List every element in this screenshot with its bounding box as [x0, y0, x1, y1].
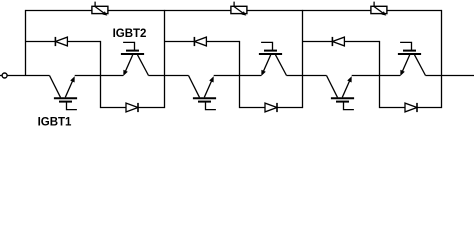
wire collector link cell 1	[149, 75, 189, 77]
wire top rail cell 2 right segment	[247, 10, 303, 12]
svg-text:IGBT2: IGBT2	[113, 28, 147, 40]
wire top rail cell 3 left segment	[303, 10, 371, 12]
wire clamp-diode rail cell 3 left segment	[303, 41, 333, 43]
wire top rail cell 1 left segment	[26, 10, 92, 12]
wire clamp-diode rail cell 2 left segment	[165, 41, 195, 43]
transistor IGBT1 (lower IGBT)	[50, 76, 78, 110]
wire clamp-diode rail cell 1 right segment	[67, 41, 100, 43]
wire emitter link cell 2	[214, 75, 262, 77]
wire right bus cell 2	[302, 10, 304, 108]
wire bottom rail cell 1 right segment	[138, 107, 165, 109]
wire left input riser	[25, 10, 27, 76]
wire center bus cell 2	[239, 41, 241, 108]
label IGBT1	[38, 117, 72, 129]
wire bottom rail cell 2 left segment	[240, 107, 266, 109]
varistor RV2	[231, 2, 247, 16]
transistor IGBT2 (upper IGBT)	[121, 42, 149, 76]
diode D1	[55, 37, 67, 46]
varistor RV1	[92, 2, 108, 16]
varistor RV3	[371, 2, 387, 16]
diode D3	[194, 37, 206, 46]
wire center bus cell 1	[100, 41, 102, 108]
wire bottom rail cell 3 right segment	[417, 107, 442, 109]
diode D6	[405, 103, 417, 112]
wire bottom rail cell 3 left segment	[380, 107, 406, 109]
wire bottom rail cell 2 right segment	[277, 107, 303, 109]
transistor Q6 (upper IGBT)	[398, 42, 426, 76]
wire right bus cell 1	[164, 10, 166, 108]
wire clamp-diode rail cell 1 left segment	[26, 41, 56, 43]
wire center bus cell 3	[379, 41, 381, 108]
diode D4	[265, 103, 277, 112]
wire collector link cell 2	[287, 75, 327, 77]
transistor Q4 (upper IGBT)	[259, 42, 287, 76]
diode D5	[332, 37, 344, 46]
transistor Q5 (lower IGBT)	[327, 76, 355, 110]
wire top rail cell 1 right segment	[108, 10, 165, 12]
wire output	[426, 75, 474, 77]
wire emitter link cell 3	[352, 75, 401, 77]
wire top rail cell 3 right segment	[387, 10, 442, 12]
wire bottom rail cell 1 left segment	[101, 107, 127, 109]
label IGBT2	[113, 28, 147, 40]
wire input to IGBT1	[7, 75, 49, 77]
wire emitter link cell 1	[75, 75, 124, 77]
wire top rail cell 2 left segment	[165, 10, 231, 12]
wire clamp-diode rail cell 2 right segment	[206, 41, 239, 43]
diode D2	[126, 103, 138, 112]
transistor Q3 (lower IGBT)	[189, 76, 217, 110]
svg-text:IGBT1: IGBT1	[38, 117, 72, 129]
input terminal	[0, 73, 7, 78]
wire clamp-diode rail cell 3 right segment	[344, 41, 379, 43]
wire right bus cell 3	[441, 10, 443, 108]
